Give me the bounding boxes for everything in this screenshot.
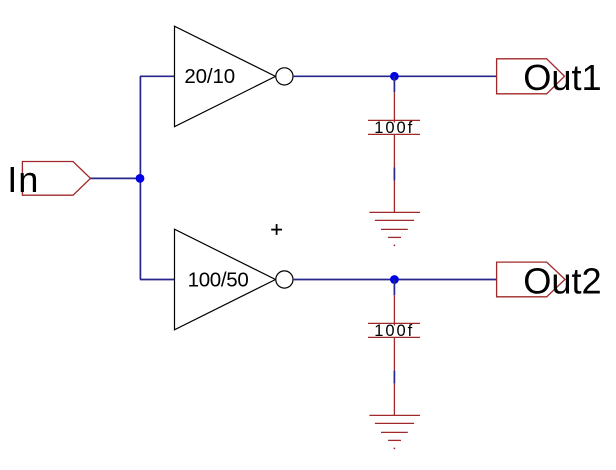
wire inverter B output to Out2 port (293, 279, 497, 281)
svg-text:In: In (7, 159, 39, 200)
svg-text:100/50: 100/50 (188, 268, 249, 291)
junction dot node Out2 (390, 275, 399, 284)
wire vertical bus (139, 76, 141, 279)
inverter A triangle (175, 26, 276, 127)
plus marker near inverter B (271, 224, 282, 235)
svg-text:Out1: Out1 (523, 57, 601, 98)
inverter B size label 100/50 (188, 268, 249, 291)
output port Out1 (497, 59, 565, 94)
ground symbol GND1 (369, 181, 420, 247)
svg-text:100f: 100f (374, 119, 414, 137)
svg-text:20/10: 20/10 (184, 65, 235, 88)
wire capacitor C2 to ground (393, 370, 395, 383)
wire bus to inverter A input (140, 75, 175, 77)
output port Out2 (497, 262, 565, 297)
port label Out1 (523, 57, 601, 98)
capacitor C1 (368, 92, 420, 167)
port label Out2 (523, 261, 601, 302)
wire inverter A output to Out1 port (293, 75, 497, 77)
input port In (22, 162, 90, 196)
inverter B triangle (175, 229, 276, 330)
wire In port to bus (91, 177, 141, 179)
inverter B output bubble (276, 271, 293, 288)
inverter A output bubble (276, 68, 293, 85)
wire capacitor C1 to ground (393, 167, 395, 180)
capacitor C1 value 100f (374, 119, 414, 137)
junction dot at In bus (136, 174, 145, 183)
inverter A size label 20/10 (184, 65, 235, 88)
wire junction to capacitor C1 (393, 76, 395, 92)
svg-text:100f: 100f (374, 322, 414, 340)
port label In (7, 159, 39, 200)
junction dot node Out1 (390, 72, 399, 81)
ground symbol GND2 (369, 384, 420, 450)
wire bus to inverter B input (140, 279, 175, 281)
wire junction to capacitor C2 (393, 280, 395, 296)
svg-text:Out2: Out2 (523, 261, 601, 302)
capacitor C2 value 100f (374, 322, 414, 340)
capacitor C2 (368, 295, 420, 370)
